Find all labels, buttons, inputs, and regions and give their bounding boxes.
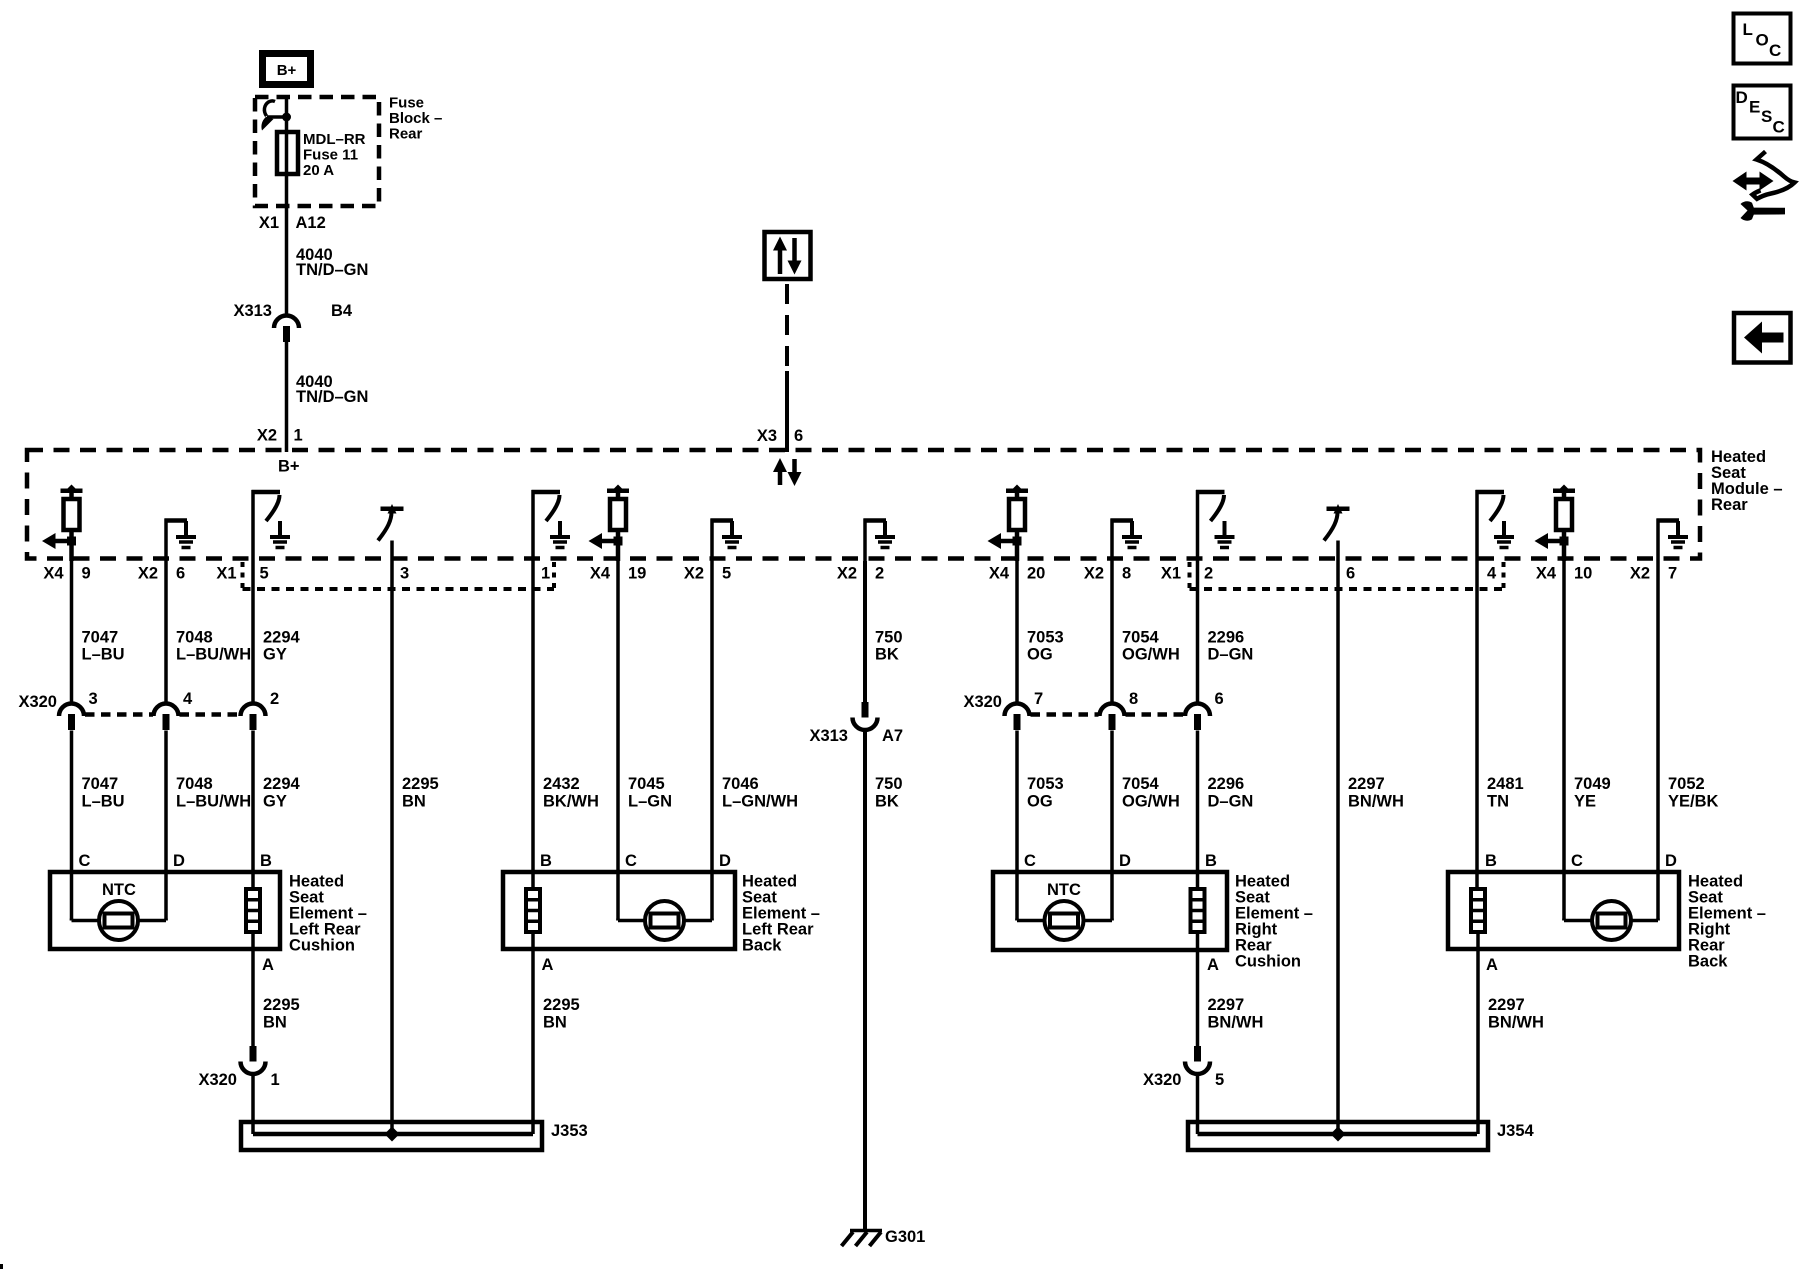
- ground G301: [842, 1231, 883, 1247]
- svg-text:X2: X2: [1630, 565, 1650, 583]
- svg-text:6: 6: [176, 565, 185, 583]
- svg-text:BN/WH: BN/WH: [1348, 793, 1404, 811]
- connector X320 1: [241, 1046, 266, 1074]
- svg-text:5: 5: [1215, 1071, 1224, 1089]
- wire label 7048 L&#8211;BU/WH mid: [176, 775, 251, 811]
- pin letter A right cushion: [1207, 956, 1219, 974]
- svg-text:D: D: [1736, 88, 1748, 107]
- svg-text:J353: J353: [551, 1122, 588, 1140]
- wire label 2295 BN right: [543, 996, 580, 1032]
- svg-text:X1: X1: [1161, 565, 1181, 583]
- svg-text:1: 1: [271, 1071, 280, 1089]
- fuse value label: [303, 131, 366, 179]
- module switch to ground pin 1: [532, 490, 571, 561]
- svg-text:2295: 2295: [402, 775, 439, 793]
- NTC thermistor left cushion: [99, 901, 138, 940]
- wire label 2481 TN mid: [1487, 775, 1524, 811]
- wire 7049 YE drop: [1562, 561, 1566, 921]
- svg-text:BN/WH: BN/WH: [1208, 1014, 1264, 1032]
- svg-text:X2: X2: [1084, 565, 1104, 583]
- wire label 4040 TN/D-GN lower: [296, 373, 368, 406]
- wire 7053 upper: [1015, 561, 1019, 705]
- connector pin label 4: [183, 690, 193, 708]
- svg-text:2296: 2296: [1208, 775, 1245, 793]
- svg-text:D–GN: D–GN: [1208, 793, 1254, 811]
- module internal ground pin X2 5: [711, 519, 743, 562]
- wire label 7053 OG upper: [1027, 629, 1064, 664]
- pin labels X2 2: [837, 565, 884, 583]
- wire B-A through right cushion: [1196, 932, 1200, 1046]
- pin labels X2 6: [138, 565, 185, 583]
- svg-text:J354: J354: [1497, 1122, 1535, 1140]
- svg-text:X313: X313: [233, 302, 272, 320]
- svg-text:L–BU: L–BU: [82, 793, 125, 811]
- wire label 2295 BN mid: [402, 775, 439, 811]
- wire serial data dashed: [785, 284, 789, 371]
- svg-text:S: S: [1761, 107, 1772, 126]
- svg-text:10: 10: [1574, 565, 1592, 583]
- svg-text:L–BU: L–BU: [82, 646, 125, 664]
- svg-text:1: 1: [541, 565, 550, 583]
- wire 7054 lower: [1110, 731, 1114, 921]
- pin letter A right back: [1486, 956, 1498, 974]
- svg-text:20 A: 20 A: [303, 162, 334, 179]
- pin labels X1 A12: [259, 214, 326, 232]
- svg-text:1: 1: [294, 427, 303, 445]
- svg-text:8: 8: [1129, 690, 1138, 708]
- svg-text:7053: 7053: [1027, 629, 1064, 647]
- wire 2296 lower: [1196, 731, 1200, 890]
- svg-text:Back: Back: [742, 937, 782, 955]
- wire 2432 BK/WH drop: [531, 561, 535, 889]
- wire 7048 upper: [164, 561, 168, 705]
- switch contact in fuse block: [261, 101, 291, 131]
- svg-text:G301: G301: [885, 1228, 925, 1246]
- pin labels X2 8: [1084, 565, 1131, 583]
- wire label 750 BK upper: [875, 629, 903, 664]
- svg-text:7048: 7048: [176, 775, 213, 793]
- wire label 7053 OG mid: [1027, 775, 1064, 811]
- svg-text:2294: 2294: [263, 775, 301, 793]
- NTC leads right cushion: [1017, 919, 1112, 921]
- svg-text:2297: 2297: [1208, 996, 1245, 1014]
- svg-text:X2: X2: [257, 427, 277, 445]
- element label left rear back: [742, 873, 820, 955]
- svg-text:X1: X1: [259, 214, 279, 232]
- svg-text:D: D: [1119, 852, 1131, 870]
- wire 7047 upper: [70, 561, 74, 705]
- svg-text:BK: BK: [875, 646, 899, 664]
- svg-text:X4: X4: [989, 565, 1010, 583]
- pin labels X4 20: [989, 565, 1046, 583]
- svg-text:TN/D–GN: TN/D–GN: [296, 261, 368, 279]
- wire 7046 L-GN/WH drop: [710, 561, 714, 921]
- svg-text:19: 19: [628, 565, 646, 583]
- heating element right back B leg: [1471, 889, 1485, 932]
- svg-text:7048: 7048: [176, 629, 213, 647]
- svg-text:5: 5: [260, 565, 269, 583]
- svg-text:Fuse 11: Fuse 11: [303, 147, 358, 164]
- module internal ground pin X2 8: [1111, 519, 1143, 562]
- connector X1 dotted group right: [1190, 562, 1504, 589]
- wire X320-5 to splice: [1196, 1074, 1200, 1134]
- fuse block label: [389, 95, 442, 143]
- svg-text:2: 2: [875, 565, 884, 583]
- pin labels 6: [1346, 565, 1355, 583]
- module switch contact pin 6: [1324, 504, 1350, 561]
- connector X320 pin 6: [1185, 704, 1210, 731]
- pin labels X4 10: [1536, 565, 1593, 583]
- ground label G301: [885, 1228, 925, 1246]
- module internal ground pin X2 2: [864, 519, 896, 562]
- module output driver pin X4 19: [589, 485, 630, 562]
- svg-text:TN: TN: [1487, 793, 1509, 811]
- svg-text:X320: X320: [18, 693, 57, 711]
- wire 2481 TN drop: [1475, 561, 1479, 889]
- svg-text:A: A: [1486, 956, 1498, 974]
- svg-text:O: O: [1756, 31, 1769, 50]
- NTC label left cushion: [102, 881, 136, 899]
- node B+ at module: [278, 458, 300, 476]
- connector pin label 3: [89, 690, 98, 708]
- connector X320 pin 7: [1005, 704, 1030, 731]
- svg-text:7054: 7054: [1122, 775, 1160, 793]
- wire label 7045 L&#8211;GN mid: [628, 775, 672, 811]
- wire B-A through left cushion: [251, 932, 255, 1046]
- wire 750 BK upper: [863, 561, 867, 702]
- connector labels X313 A7: [809, 727, 903, 745]
- svg-text:B: B: [1485, 852, 1497, 870]
- connector X320 left label: [18, 693, 57, 711]
- wire label 4040 TN/D-GN upper: [296, 246, 368, 279]
- connector X320 right label: [963, 693, 1002, 711]
- connector labels X320 1: [198, 1071, 279, 1089]
- pin labels X3 6: [757, 427, 803, 445]
- heating element left cushion B leg: [246, 889, 260, 932]
- splice label J353: [551, 1122, 588, 1140]
- module label: [1711, 448, 1783, 514]
- heating element right cushion B leg: [1191, 889, 1205, 932]
- svg-text:Block –: Block –: [389, 110, 442, 127]
- wire B-A through right back: [1476, 932, 1480, 1134]
- module internal ground pin X2 7: [1657, 519, 1689, 562]
- module switch to ground pin X1 2: [1196, 490, 1235, 561]
- wire B+ feed upper: [285, 96, 289, 316]
- svg-text:OG: OG: [1027, 646, 1053, 664]
- svg-text:A7: A7: [882, 727, 903, 745]
- wire 2294 lower: [251, 731, 255, 890]
- svg-text:5: 5: [722, 565, 731, 583]
- svg-text:GY: GY: [263, 793, 287, 811]
- svg-text:2295: 2295: [263, 996, 300, 1014]
- fuse block rear dashed box: [255, 97, 379, 206]
- svg-text:X320: X320: [963, 693, 1002, 711]
- module output driver pin X4 10: [1535, 485, 1576, 562]
- wire B+ feed lower: [285, 342, 289, 452]
- element circle right back: [1592, 901, 1631, 940]
- svg-text:7047: 7047: [82, 775, 119, 793]
- pin labels X1 2: [1161, 565, 1213, 583]
- wire 7048 lower: [164, 731, 168, 921]
- connector pin label 2: [270, 690, 279, 708]
- svg-text:6: 6: [794, 427, 803, 445]
- svg-text:X2: X2: [837, 565, 857, 583]
- svg-text:Rear: Rear: [1711, 496, 1748, 514]
- page speck: [0, 1264, 3, 1269]
- svg-text:BK/WH: BK/WH: [543, 793, 599, 811]
- connector pin label 7: [1034, 690, 1043, 708]
- svg-text:B: B: [1205, 852, 1217, 870]
- svg-text:L: L: [1743, 20, 1753, 39]
- icon DESC box: [1734, 86, 1791, 139]
- wire 7045 L-GN drop: [616, 561, 620, 921]
- wire label 2294 GY mid: [263, 775, 301, 811]
- svg-text:L–GN: L–GN: [628, 793, 672, 811]
- svg-text:C: C: [1571, 852, 1583, 870]
- pin labels 3: [400, 565, 409, 583]
- svg-text:NTC: NTC: [1047, 881, 1081, 899]
- svg-text:B: B: [260, 852, 272, 870]
- svg-text:9: 9: [82, 565, 91, 583]
- pin labels X4 9: [43, 565, 90, 583]
- module switch contact pin 3: [378, 504, 404, 561]
- heating element left back B leg: [526, 889, 540, 932]
- svg-text:3: 3: [89, 690, 98, 708]
- wire label 7048 L&#8211;BU/WH upper: [176, 629, 251, 664]
- svg-text:D: D: [173, 852, 185, 870]
- svg-text:X320: X320: [198, 1071, 237, 1089]
- svg-text:X3: X3: [757, 427, 777, 445]
- svg-text:BN: BN: [263, 1014, 287, 1032]
- wire label 2297 BN/WH mid: [1348, 775, 1404, 811]
- wire label 2432 BK/WH mid: [543, 775, 599, 811]
- svg-text:TN/D–GN: TN/D–GN: [296, 388, 368, 406]
- NTC leads left cushion: [72, 919, 167, 921]
- svg-text:X4: X4: [43, 565, 64, 583]
- svg-text:C: C: [1024, 852, 1036, 870]
- wire X320-1 to splice: [251, 1074, 255, 1134]
- module internal ground pin X2 6: [165, 519, 197, 562]
- element label left rear cushion: [289, 873, 367, 955]
- svg-text:C: C: [625, 852, 637, 870]
- pin labels 1: [541, 565, 550, 583]
- wire label 2296 D&#8211;GN upper: [1208, 629, 1254, 664]
- element leads right back: [1564, 919, 1658, 921]
- svg-text:B: B: [540, 852, 552, 870]
- svg-text:6: 6: [1215, 690, 1224, 708]
- wire 7052 YE/BK drop: [1656, 561, 1660, 921]
- connector X320 dashed links left: [85, 712, 240, 717]
- heated seat element left rear cushion box: [50, 872, 280, 949]
- heated seat module rear dashed box: [27, 450, 1700, 559]
- svg-text:Cushion: Cushion: [289, 937, 355, 955]
- svg-text:2297: 2297: [1348, 775, 1385, 793]
- svg-text:2297: 2297: [1488, 996, 1525, 1014]
- svg-text:750: 750: [875, 775, 903, 793]
- svg-text:A12: A12: [296, 214, 326, 232]
- wire label 750 BK lower: [875, 775, 903, 811]
- serial data symbol box: [765, 232, 811, 279]
- wire serial data solid: [785, 371, 789, 452]
- svg-text:X313: X313: [809, 727, 848, 745]
- wire 750 BK lower: [863, 730, 867, 1230]
- wire label 7054 OG/WH upper: [1122, 629, 1180, 664]
- svg-text:7054: 7054: [1122, 629, 1160, 647]
- splice J354: [1188, 1122, 1488, 1150]
- fuse MDL-RR Fuse 11 20 A: [277, 132, 298, 174]
- svg-text:A: A: [262, 956, 274, 974]
- svg-text:20: 20: [1027, 565, 1045, 583]
- svg-text:L–BU/WH: L–BU/WH: [176, 646, 251, 664]
- pin labels X2 7: [1630, 565, 1677, 583]
- icon LOC box: [1734, 14, 1791, 64]
- svg-text:2: 2: [270, 690, 279, 708]
- wire 2295 BN full drop: [390, 561, 394, 1134]
- svg-text:7053: 7053: [1027, 775, 1064, 793]
- svg-text:C: C: [79, 852, 91, 870]
- svg-text:C: C: [1773, 118, 1785, 137]
- connector X313 B4: [274, 316, 299, 343]
- wire label 7047 L&#8211;BU mid: [82, 775, 125, 811]
- wire 7054 upper: [1110, 561, 1114, 705]
- svg-text:X1: X1: [216, 565, 236, 583]
- connector X313 A7: [853, 702, 878, 730]
- wire 2297 BN/WH full drop: [1336, 561, 1340, 1134]
- svg-text:4: 4: [183, 690, 193, 708]
- svg-text:7: 7: [1668, 565, 1677, 583]
- module output driver pin X4 20: [988, 485, 1029, 562]
- svg-text:BK: BK: [875, 793, 899, 811]
- connector labels X320 5: [1143, 1071, 1224, 1089]
- svg-text:6: 6: [1346, 565, 1355, 583]
- svg-text:L–BU/WH: L–BU/WH: [176, 793, 251, 811]
- connector pin label 8: [1129, 690, 1138, 708]
- svg-text:7047: 7047: [82, 629, 119, 647]
- svg-text:A: A: [542, 956, 554, 974]
- svg-text:Cushion: Cushion: [1235, 953, 1301, 971]
- NTC label right cushion: [1047, 881, 1081, 899]
- svg-text:E: E: [1749, 98, 1760, 117]
- splice J353: [241, 1122, 542, 1150]
- svg-text:MDL–RR: MDL–RR: [303, 131, 366, 148]
- wire label 2297 BN/WH right: [1488, 996, 1544, 1032]
- svg-text:B+: B+: [278, 458, 300, 476]
- svg-text:8: 8: [1122, 565, 1131, 583]
- pin labels X1 5: [216, 565, 268, 583]
- element circle left back: [645, 901, 684, 940]
- pin letter A left cushion: [262, 956, 274, 974]
- svg-text:X2: X2: [138, 565, 158, 583]
- wire label 2295 BN left: [263, 996, 300, 1032]
- svg-text:Back: Back: [1688, 953, 1728, 971]
- wire label 7052 YE/BK mid: [1668, 775, 1719, 811]
- connector X320 5: [1185, 1046, 1210, 1074]
- svg-text:2481: 2481: [1487, 775, 1524, 793]
- svg-text:2: 2: [1204, 565, 1213, 583]
- icon wiring route arrow and wrench: [1733, 152, 1795, 221]
- svg-text:7052: 7052: [1668, 775, 1705, 793]
- wire label 2296 D&#8211;GN mid: [1208, 775, 1254, 811]
- svg-text:NTC: NTC: [102, 881, 136, 899]
- wire B-A through left back: [531, 932, 535, 1134]
- svg-text:2294: 2294: [263, 629, 301, 647]
- svg-text:X2: X2: [684, 565, 704, 583]
- svg-text:X320: X320: [1143, 1071, 1182, 1089]
- svg-text:750: 750: [875, 629, 903, 647]
- element leads left back: [618, 919, 712, 921]
- svg-text:GY: GY: [263, 646, 287, 664]
- connector pin label 6: [1215, 690, 1224, 708]
- pin labels 4: [1487, 565, 1497, 583]
- element label right rear back: [1688, 873, 1766, 971]
- wire label 7046 L&#8211;GN/WH mid: [722, 775, 798, 811]
- wire 7047 lower: [70, 731, 74, 921]
- pin letters B C D left back: [540, 852, 731, 870]
- svg-text:D: D: [719, 852, 731, 870]
- svg-text:4: 4: [1487, 565, 1497, 583]
- module switch to ground pin X1 5: [252, 490, 291, 561]
- svg-text:D: D: [1665, 852, 1677, 870]
- connector X320 pin 8: [1100, 704, 1125, 731]
- svg-text:C: C: [1769, 41, 1781, 60]
- svg-text:2295: 2295: [543, 996, 580, 1014]
- wire 7053 lower: [1015, 731, 1019, 921]
- svg-text:A: A: [1207, 956, 1219, 974]
- svg-text:7045: 7045: [628, 775, 665, 793]
- connector X313 B4 labels: [233, 302, 352, 320]
- wire label 7049 YE mid: [1574, 775, 1611, 811]
- wire label 2297 BN/WH left: [1208, 996, 1264, 1032]
- pin letters C D B right cushion: [1024, 852, 1217, 870]
- svg-text:OG: OG: [1027, 793, 1053, 811]
- heated seat element right rear back box: [1448, 872, 1679, 949]
- element label right rear cushion: [1235, 873, 1313, 971]
- connector X320 pin 2: [241, 704, 266, 731]
- B+ power symbol: [263, 54, 311, 85]
- svg-text:X4: X4: [590, 565, 611, 583]
- module switch to ground pin 4: [1476, 490, 1515, 561]
- svg-text:7: 7: [1034, 690, 1043, 708]
- module output driver pin X4 9: [42, 485, 83, 562]
- svg-text:Rear: Rear: [389, 126, 423, 143]
- pin letters C D B left cushion: [79, 852, 273, 870]
- pin letter A left back: [542, 956, 554, 974]
- heated seat element left rear back box: [503, 872, 735, 949]
- svg-text:OG/WH: OG/WH: [1122, 793, 1180, 811]
- wire 2296 upper: [1196, 561, 1200, 705]
- connector X320 dashed links right: [1031, 712, 1185, 717]
- pin labels X2 1: [257, 427, 303, 445]
- pin labels X2 5: [684, 565, 731, 583]
- svg-text:Fuse: Fuse: [389, 95, 424, 112]
- heated seat element right rear cushion box: [993, 872, 1227, 950]
- svg-text:YE: YE: [1574, 793, 1596, 811]
- svg-text:BN: BN: [543, 1014, 567, 1032]
- pin letters B C D right back: [1485, 852, 1677, 870]
- svg-text:L–GN/WH: L–GN/WH: [722, 793, 798, 811]
- svg-text:BN/WH: BN/WH: [1488, 1014, 1544, 1032]
- connector X320 pin 3: [59, 704, 84, 731]
- pin labels X4 19: [590, 565, 647, 583]
- wire label 7047 L&#8211;BU upper: [82, 629, 125, 664]
- icon back arrow box: [1734, 313, 1791, 363]
- NTC thermistor right cushion: [1045, 901, 1084, 940]
- svg-text:D–GN: D–GN: [1208, 646, 1254, 664]
- svg-text:7049: 7049: [1574, 775, 1611, 793]
- svg-text:3: 3: [400, 565, 409, 583]
- svg-text:BN: BN: [402, 793, 426, 811]
- svg-text:B+: B+: [277, 62, 297, 79]
